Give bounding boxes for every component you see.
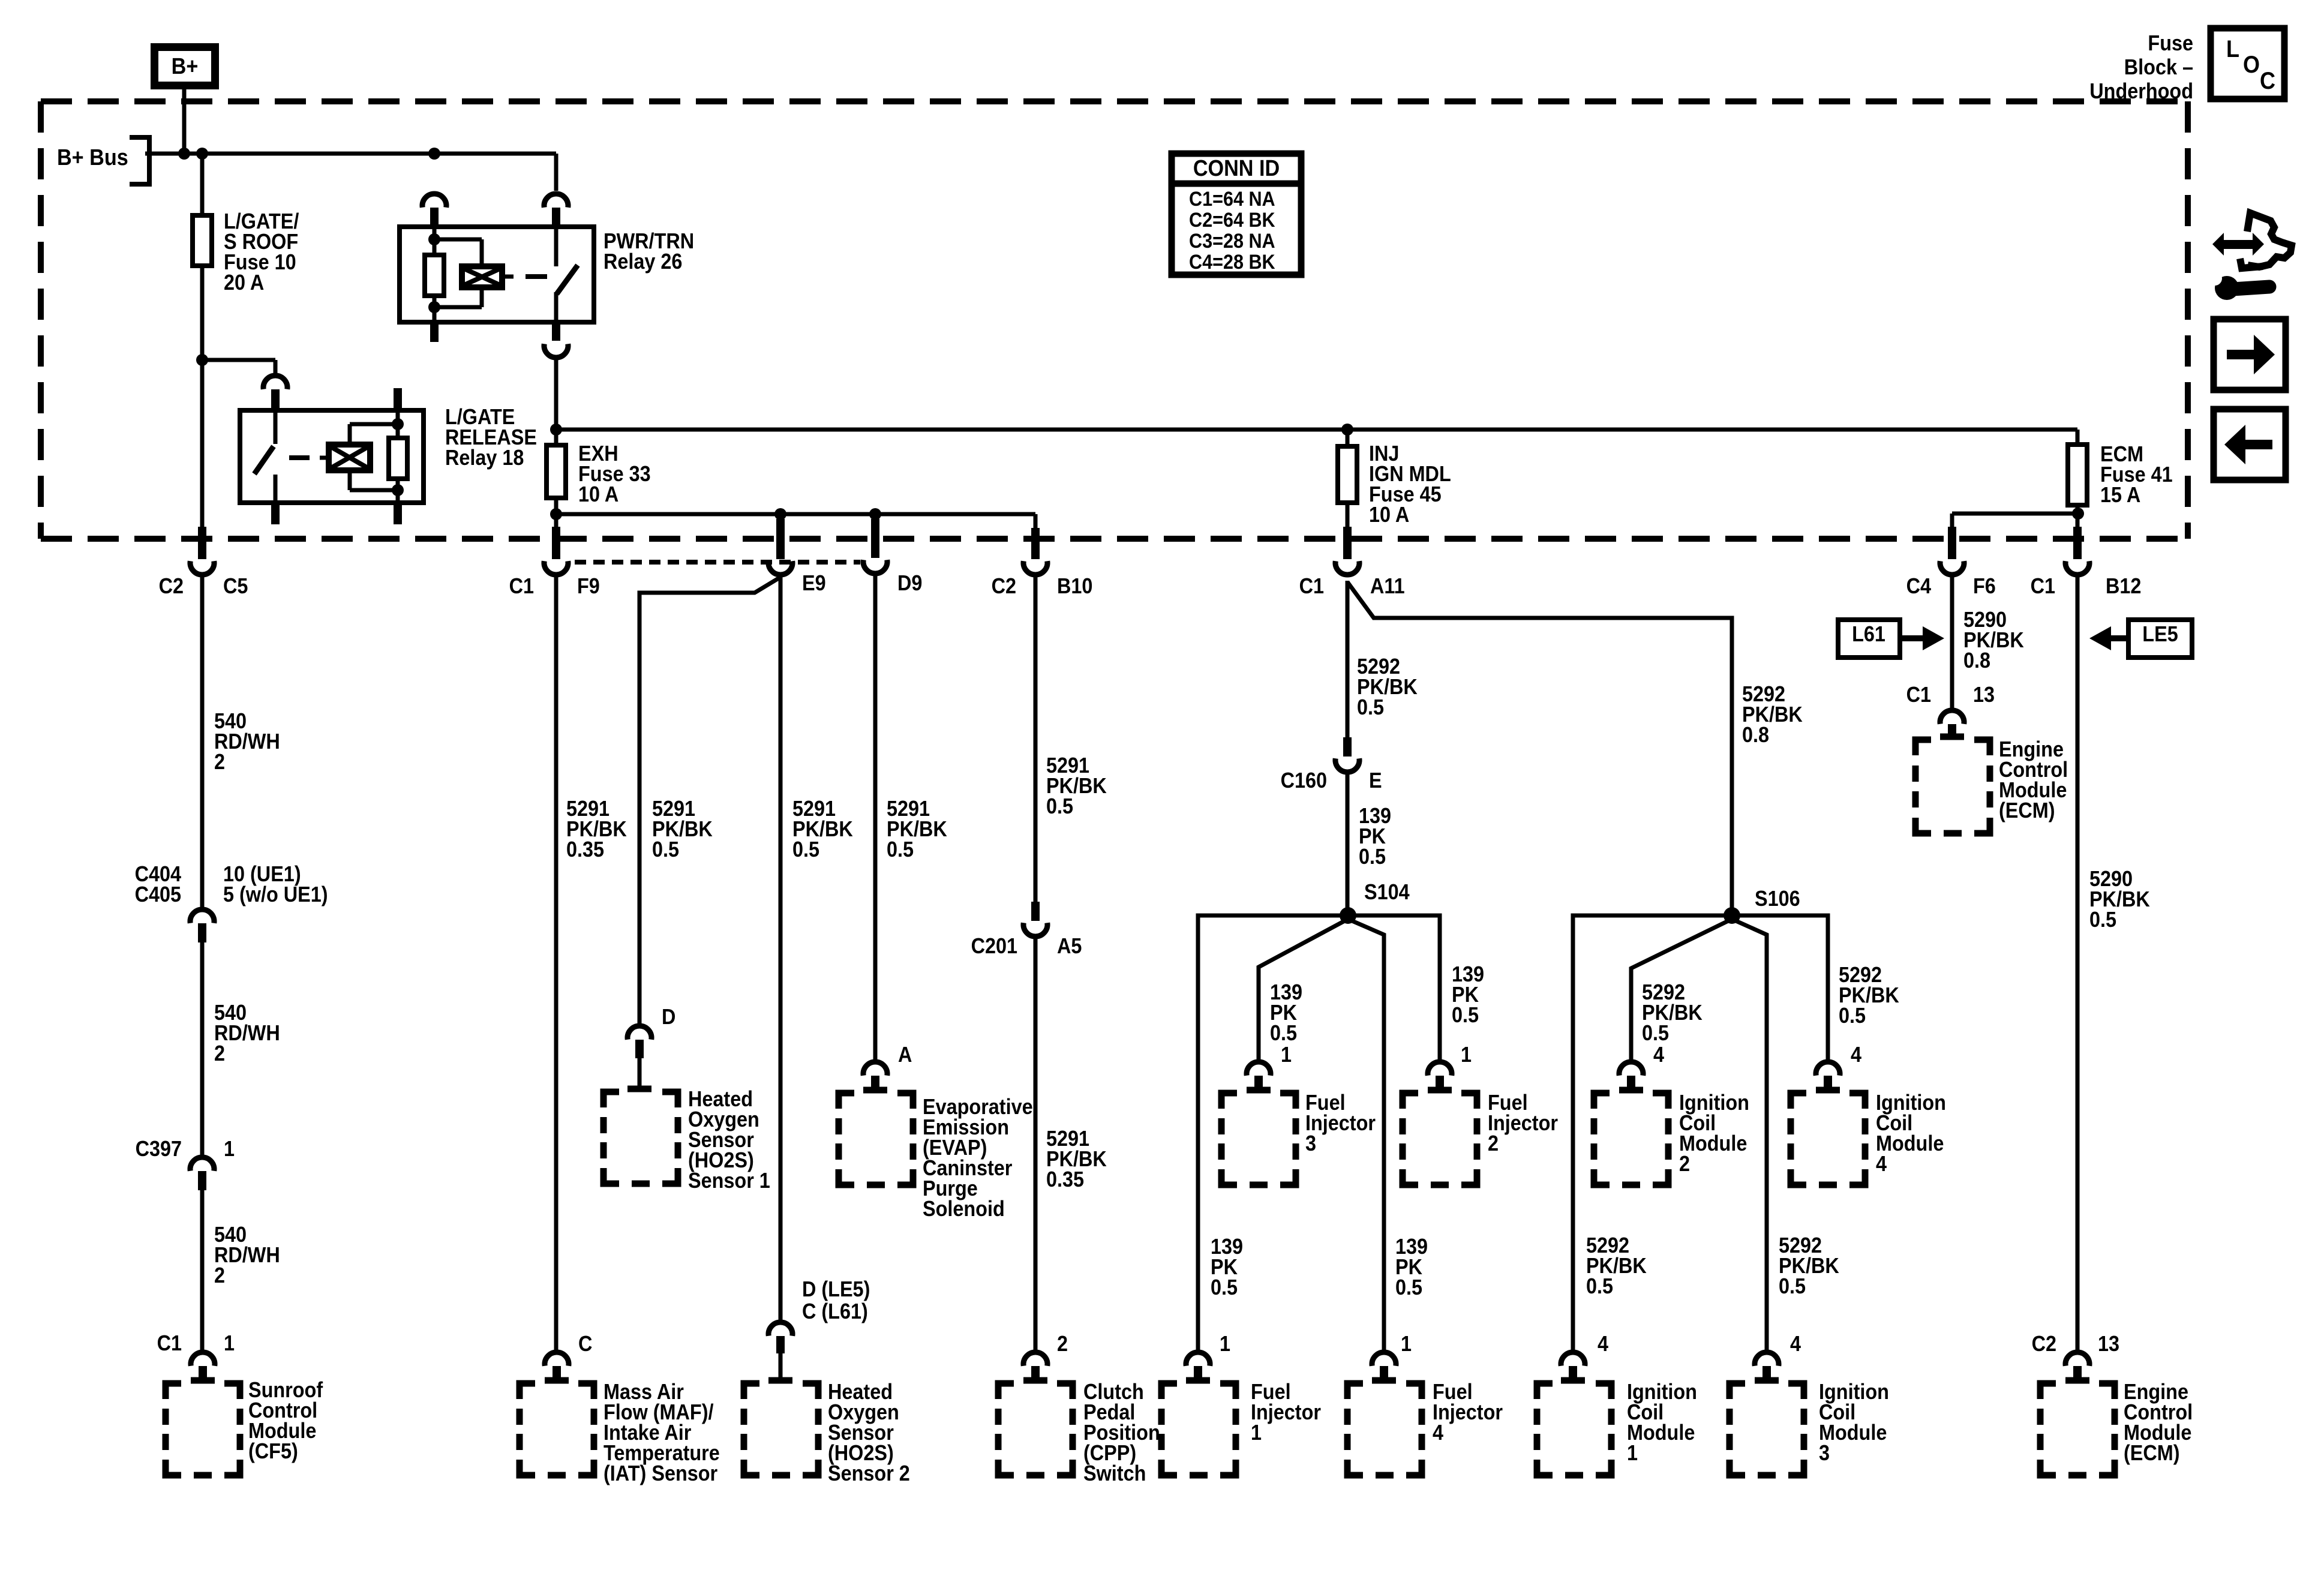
svg-text:1: 1 xyxy=(224,1331,235,1355)
svg-text:4: 4 xyxy=(1790,1332,1801,1356)
svg-text:1: 1 xyxy=(1220,1332,1230,1356)
svg-text:C1: C1 xyxy=(2031,574,2055,598)
svg-text:13: 13 xyxy=(2098,1332,2119,1356)
svg-text:CONN ID: CONN ID xyxy=(1193,155,1280,181)
svg-text:F9: F9 xyxy=(577,574,600,598)
svg-text:C1: C1 xyxy=(157,1331,182,1355)
svg-text:C5: C5 xyxy=(223,574,248,598)
svg-text:E: E xyxy=(1369,769,1382,792)
svg-text:Relay 26: Relay 26 xyxy=(603,250,682,274)
svg-text:D: D xyxy=(662,1005,675,1029)
svg-text:C397: C397 xyxy=(136,1137,182,1161)
svg-text:C: C xyxy=(578,1332,592,1356)
svg-text:B12: B12 xyxy=(2106,574,2141,598)
svg-text:0.8: 0.8 xyxy=(1963,649,1990,673)
svg-text:(ECM): (ECM) xyxy=(1999,798,2055,822)
svg-text:Solenoid: Solenoid xyxy=(923,1197,1005,1221)
svg-text:A5: A5 xyxy=(1057,934,1082,958)
svg-text:S104: S104 xyxy=(1364,880,1410,904)
svg-text:4: 4 xyxy=(1653,1043,1664,1067)
svg-text:C405: C405 xyxy=(135,882,181,906)
svg-text:0.5: 0.5 xyxy=(1046,794,1073,818)
svg-text:0.5: 0.5 xyxy=(1357,695,1384,719)
svg-text:0.5: 0.5 xyxy=(1642,1021,1669,1045)
svg-text:0.35: 0.35 xyxy=(1046,1167,1084,1191)
svg-text:C1: C1 xyxy=(1906,683,1931,707)
svg-text:C4=28 BK: C4=28 BK xyxy=(1189,251,1275,274)
svg-text:C201: C201 xyxy=(971,934,1017,958)
svg-text:C4: C4 xyxy=(1906,574,1931,598)
svg-text:10 A: 10 A xyxy=(1369,503,1409,527)
svg-text:A: A xyxy=(898,1043,912,1067)
svg-text:(ECM): (ECM) xyxy=(2124,1441,2180,1465)
svg-text:3: 3 xyxy=(1819,1441,1830,1465)
svg-text:10 A: 10 A xyxy=(578,482,618,506)
svg-text:0.5: 0.5 xyxy=(1211,1275,1238,1299)
svg-text:C: C xyxy=(2260,68,2275,94)
svg-text:B+ Bus: B+ Bus xyxy=(57,144,128,170)
svg-text:0.5: 0.5 xyxy=(1395,1275,1422,1299)
svg-text:L61: L61 xyxy=(1852,622,1885,646)
svg-text:1: 1 xyxy=(1461,1043,1472,1067)
svg-text:2: 2 xyxy=(1057,1332,1068,1356)
svg-text:2: 2 xyxy=(1679,1152,1690,1176)
svg-text:D9: D9 xyxy=(897,571,922,595)
svg-text:0.5: 0.5 xyxy=(1359,845,1386,869)
svg-text:0.8: 0.8 xyxy=(1742,723,1769,747)
svg-text:S106: S106 xyxy=(1755,887,1800,911)
svg-text:1: 1 xyxy=(1251,1421,1262,1445)
svg-text:B10: B10 xyxy=(1057,574,1092,598)
svg-text:C2: C2 xyxy=(992,574,1016,598)
svg-text:4: 4 xyxy=(1876,1152,1887,1176)
svg-text:2: 2 xyxy=(214,1263,225,1287)
svg-text:15 A: 15 A xyxy=(2100,483,2140,507)
svg-text:0.5: 0.5 xyxy=(1839,1004,1866,1028)
svg-text:Relay 18: Relay 18 xyxy=(445,446,524,470)
svg-text:Block –: Block – xyxy=(2124,55,2193,79)
svg-text:Sensor 1: Sensor 1 xyxy=(688,1169,770,1193)
svg-text:Fuse: Fuse xyxy=(2148,31,2193,55)
svg-text:0.5: 0.5 xyxy=(1779,1274,1806,1298)
svg-text:Switch: Switch xyxy=(1083,1461,1146,1485)
svg-text:C1: C1 xyxy=(1299,574,1324,598)
svg-text:1: 1 xyxy=(1401,1332,1412,1356)
svg-text:2: 2 xyxy=(1488,1131,1499,1155)
svg-text:Underhood: Underhood xyxy=(2089,79,2193,103)
svg-text:2: 2 xyxy=(214,750,225,774)
svg-text:0.5: 0.5 xyxy=(792,837,819,861)
svg-text:(CF5): (CF5) xyxy=(248,1439,298,1463)
svg-text:C2: C2 xyxy=(159,574,184,598)
svg-text:C1=64 NA: C1=64 NA xyxy=(1189,188,1275,211)
svg-text:E9: E9 xyxy=(802,571,826,595)
svg-text:B+: B+ xyxy=(172,53,199,79)
svg-text:C2: C2 xyxy=(2032,1332,2056,1356)
svg-text:0.35: 0.35 xyxy=(566,837,604,861)
svg-text:4: 4 xyxy=(1433,1421,1443,1445)
svg-text:13: 13 xyxy=(1973,683,1995,707)
svg-text:20 A: 20 A xyxy=(224,271,264,295)
svg-text:0.5: 0.5 xyxy=(1586,1274,1613,1298)
svg-text:(IAT) Sensor: (IAT) Sensor xyxy=(603,1461,717,1485)
svg-text:1: 1 xyxy=(224,1137,235,1161)
svg-text:O: O xyxy=(2243,52,2260,78)
svg-text:C (L61): C (L61) xyxy=(802,1299,868,1323)
svg-text:C3=28 NA: C3=28 NA xyxy=(1189,230,1275,253)
svg-text:1: 1 xyxy=(1627,1441,1638,1465)
svg-text:0.5: 0.5 xyxy=(1452,1003,1479,1027)
svg-text:0.5: 0.5 xyxy=(1270,1021,1297,1045)
svg-text:4: 4 xyxy=(1598,1332,1608,1356)
svg-text:A11: A11 xyxy=(1370,574,1405,598)
svg-text:0.5: 0.5 xyxy=(652,837,679,861)
svg-text:D (LE5): D (LE5) xyxy=(802,1277,870,1301)
svg-text:1: 1 xyxy=(1281,1043,1292,1067)
svg-text:C1: C1 xyxy=(509,574,534,598)
svg-text:3: 3 xyxy=(1305,1131,1316,1155)
svg-text:F6: F6 xyxy=(1973,574,1996,598)
svg-text:C2=64 BK: C2=64 BK xyxy=(1189,209,1275,232)
svg-text:0.5: 0.5 xyxy=(887,837,914,861)
svg-text:C160: C160 xyxy=(1281,769,1327,792)
svg-text:LE5: LE5 xyxy=(2142,622,2178,646)
svg-text:5 (w/o UE1): 5 (w/o UE1) xyxy=(223,882,328,906)
svg-text:4: 4 xyxy=(1851,1043,1861,1067)
svg-text:L: L xyxy=(2226,36,2239,62)
svg-text:2: 2 xyxy=(214,1041,225,1065)
svg-text:0.5: 0.5 xyxy=(2089,908,2116,932)
svg-text:Sensor 2: Sensor 2 xyxy=(828,1461,910,1485)
